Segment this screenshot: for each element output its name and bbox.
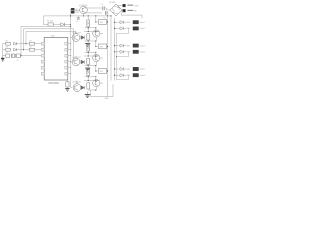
wire bridge-J2 top xyxy=(118,5,123,7)
terminal load Saida 6 xyxy=(133,74,139,77)
wire vbus B xyxy=(73,29,75,62)
wire input row 2 xyxy=(3,49,6,51)
wire bus2 xyxy=(24,29,74,50)
svg-text:R2: R2 xyxy=(6,41,8,43)
wire cluster left ch0 xyxy=(87,16,89,20)
wire D1-node xyxy=(64,24,70,26)
wire cluster feed ch0 xyxy=(85,40,96,42)
wire J1-Q1 xyxy=(74,9,79,11)
capacitor C1 xyxy=(6,54,10,57)
resistor emitter ch1 xyxy=(87,58,90,64)
junction bus V2 xyxy=(110,15,111,16)
wire bus V3 xyxy=(114,18,116,81)
transistor power ch1 xyxy=(93,54,100,61)
wire bus3 xyxy=(26,31,76,43)
wire power down ch0 xyxy=(95,37,97,41)
wire box left ch2 xyxy=(96,70,98,72)
resistor R2 xyxy=(6,42,11,45)
wire rail ch2 xyxy=(84,80,100,82)
wire bottom U xyxy=(91,84,114,97)
svg-text:7805: 7805 xyxy=(75,12,79,14)
wire caps-bridge xyxy=(104,7,106,9)
wire left rail xyxy=(2,44,4,56)
wire cluster left ch2 xyxy=(87,66,89,70)
svg-text:R10: R10 xyxy=(100,22,103,24)
transistor Q1 xyxy=(80,6,88,14)
svg-text:C1: C1 xyxy=(6,52,8,54)
ground bottom xyxy=(85,94,91,96)
wire load Saida 3 xyxy=(115,45,121,47)
svg-text:1N4: 1N4 xyxy=(127,69,130,71)
svg-text:R12: R12 xyxy=(100,71,103,73)
wire load return 1 xyxy=(117,28,129,56)
wire load Saida 2 xyxy=(115,27,121,29)
wire rail ch0 xyxy=(84,31,100,33)
diode load Saida 5 xyxy=(120,67,123,70)
wire loop left edge xyxy=(43,16,45,25)
wire R6-IC xyxy=(35,49,41,51)
wire bus V2 xyxy=(110,16,112,81)
resistor vertical cluster ch2 xyxy=(87,69,90,76)
wire box right ch1 xyxy=(106,46,109,48)
ground R8 xyxy=(65,88,69,90)
svg-text:C4: C4 xyxy=(101,4,103,6)
wire base ch0 xyxy=(71,37,73,39)
connector J1 xyxy=(71,8,74,10)
svg-text:IC1: IC1 xyxy=(51,35,55,37)
wire load Saida 5 xyxy=(115,68,121,70)
svg-text:Saida 5: Saida 5 xyxy=(140,69,146,71)
wire box right ch2 xyxy=(106,70,109,72)
svg-text:R3: R3 xyxy=(6,47,8,49)
wire cluster feed ch1 xyxy=(85,65,96,67)
resistor R6 xyxy=(29,48,34,51)
wire bridge-J2 bot xyxy=(121,10,123,12)
IC U1 right pin stubs xyxy=(68,43,72,45)
wire power down ch1 xyxy=(95,62,97,66)
wire collector top ch1 xyxy=(75,56,77,58)
terminal J2 pin1 xyxy=(123,4,126,7)
svg-text:Saida 3: Saida 3 xyxy=(140,45,146,47)
svg-text:C2: C2 xyxy=(17,60,19,62)
transistor small ch0 xyxy=(72,34,80,42)
wire row 1 to box xyxy=(17,43,30,45)
transistor small ch1 xyxy=(72,58,80,66)
svg-text:1N4: 1N4 xyxy=(127,45,130,47)
diode load Saida 6 xyxy=(120,74,123,77)
diode arrow ch2 xyxy=(81,86,84,90)
wire cluster vert ch2 xyxy=(95,66,97,72)
wire Q1 emitter xyxy=(85,12,87,14)
diode D3 xyxy=(14,48,17,51)
wire box right ch0 xyxy=(106,21,109,23)
junction input bus xyxy=(25,43,26,44)
wire R1-D1 xyxy=(53,24,60,26)
wire collector top ch0 xyxy=(75,32,77,34)
wire box left ch0 xyxy=(96,21,98,23)
resistor R8 xyxy=(66,82,69,87)
diode arrow ch0 xyxy=(81,36,84,40)
svg-text:R1 10k: R1 10k xyxy=(47,20,53,22)
svg-text:Q1 BD139: Q1 BD139 xyxy=(79,5,87,7)
capacitor C3 xyxy=(77,17,80,19)
svg-text:Saida 1: Saida 1 xyxy=(140,22,146,24)
svg-text:Saida 4: Saida 4 xyxy=(140,52,146,54)
wire cluster mid ch0 xyxy=(85,27,96,29)
junction vbusA top xyxy=(70,26,71,27)
svg-text:Q2 BC547: Q2 BC547 xyxy=(72,33,80,35)
transistor power ch0 xyxy=(93,30,100,37)
wire bus1 xyxy=(21,26,71,55)
wire vbus A xyxy=(70,9,72,88)
IC U1 pin boxes xyxy=(41,42,44,45)
diode load Saida 2 xyxy=(120,27,123,30)
wire power emitter ch2 xyxy=(100,82,103,84)
wire box left ch1 xyxy=(96,46,98,48)
svg-text:B1 W04: B1 W04 xyxy=(109,2,115,4)
terminal load Saida 3 xyxy=(133,44,139,47)
capacitor C4 xyxy=(102,6,104,10)
wire base ch2 xyxy=(71,87,73,89)
wire power emitter ch1 xyxy=(100,57,103,59)
terminal J2 pin2 xyxy=(123,9,126,12)
capacitor C2 xyxy=(17,54,21,57)
svg-text:Q6 BC547: Q6 BC547 xyxy=(72,82,80,84)
diode load Saida 1 xyxy=(120,21,123,24)
resistor R1 xyxy=(48,23,53,26)
resistor box ch0 xyxy=(98,20,106,25)
wire load Saida 6 xyxy=(115,74,121,76)
diode D1 xyxy=(61,23,65,27)
terminal load Saida 4 xyxy=(133,50,139,53)
resistor box ch2 xyxy=(98,69,106,74)
ground ch1 xyxy=(85,67,90,69)
svg-text:AC: AC xyxy=(134,10,137,13)
diode load Saida 4 xyxy=(120,50,123,53)
ground left xyxy=(2,56,4,59)
wire gnd row xyxy=(3,55,6,57)
wire Q1 collector xyxy=(85,6,87,9)
terminal load Saida 1 xyxy=(133,21,139,24)
wire bus V1 xyxy=(107,16,109,97)
resistor emitter ch0 xyxy=(87,34,90,40)
diode load Saida 3 xyxy=(120,44,123,47)
resistor emitter ch2 xyxy=(87,83,90,89)
wire row 2 to box xyxy=(17,49,30,51)
wire rail ch1 xyxy=(84,55,100,57)
wire osc row xyxy=(21,55,42,57)
transistor small ch2 xyxy=(73,84,81,92)
junction load return xyxy=(116,56,117,57)
svg-text:R11: R11 xyxy=(100,47,103,49)
svg-text:Saida 2: Saida 2 xyxy=(140,28,146,30)
wire cluster vert ch1 xyxy=(95,41,97,47)
resistor R5 xyxy=(29,42,34,45)
transistor power ch2 xyxy=(93,80,100,87)
terminal load Saida 5 xyxy=(133,67,139,70)
resistor vertical cluster ch1 xyxy=(87,45,90,52)
wire cluster mid ch1 xyxy=(85,51,96,53)
terminal load Saida 2 xyxy=(133,27,139,30)
ground ch0 xyxy=(85,43,90,45)
wire load return 3 xyxy=(117,57,129,80)
diode arrow ch1 xyxy=(81,60,84,64)
bridge rectifier B1 xyxy=(110,4,122,16)
wire psu rail xyxy=(44,15,112,17)
wire load Saida 1 xyxy=(115,21,121,23)
wire input row 1 xyxy=(3,43,6,45)
wire power down ch2 xyxy=(95,87,97,90)
wire cluster feed ch2 xyxy=(88,89,96,91)
IC U1 outline xyxy=(44,38,68,81)
resistor R3 xyxy=(6,48,11,51)
resistor vertical cluster ch0 xyxy=(87,20,90,27)
diode D2 xyxy=(14,42,17,45)
crystal X1 xyxy=(10,54,12,58)
wire collector top ch2 xyxy=(76,81,78,84)
wire cluster vert ch0 xyxy=(95,16,97,22)
svg-text:Q4 BC547: Q4 BC547 xyxy=(72,57,80,59)
wire Q1 down xyxy=(83,14,85,16)
wire base ch1 xyxy=(71,61,73,63)
resistor box ch1 xyxy=(98,44,106,49)
svg-text:R6: R6 xyxy=(30,47,32,49)
label J2 pin2 xyxy=(127,9,133,11)
wire load Saida 4 xyxy=(115,51,121,53)
svg-text:C3: C3 xyxy=(76,21,78,23)
wire J2 return xyxy=(121,12,142,18)
svg-text:GND: GND xyxy=(105,98,110,100)
svg-text:R5: R5 xyxy=(30,41,32,43)
svg-text:C5: C5 xyxy=(103,18,105,20)
svg-text:Saida 6: Saida 6 xyxy=(140,75,146,77)
label J2 pin1 xyxy=(127,4,133,6)
wire R5-IC xyxy=(35,43,41,45)
junction rail dots xyxy=(70,15,71,16)
capacitor C5 xyxy=(105,11,107,15)
svg-text:230V: 230V xyxy=(134,6,139,8)
wire loop bottom xyxy=(44,24,49,26)
wire power emitter ch0 xyxy=(100,33,103,35)
svg-text:PIC16F84: PIC16F84 xyxy=(48,83,59,85)
wire cluster mid ch2 xyxy=(85,76,96,78)
svg-text:1N4: 1N4 xyxy=(127,22,130,24)
wire cluster left ch1 xyxy=(87,41,89,45)
